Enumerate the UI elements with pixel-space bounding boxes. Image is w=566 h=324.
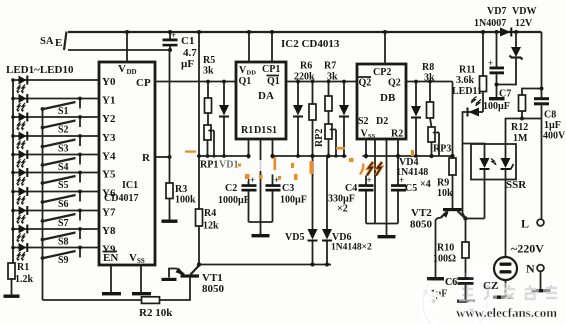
wire CP of IC1 to Q1 of DA xyxy=(155,81,236,83)
svg-text:S7: S7 xyxy=(58,218,69,229)
ground below C2 C3 xyxy=(249,222,273,237)
svg-text:Q2: Q2 xyxy=(388,78,401,89)
svg-text:+: + xyxy=(250,175,255,185)
svg-text:1N4148×2: 1N4148×2 xyxy=(331,243,372,253)
LED column label xyxy=(6,64,74,76)
terminal L xyxy=(521,217,544,231)
svg-text:VD5: VD5 xyxy=(285,232,304,243)
capacitor C6 xyxy=(423,277,474,300)
resistor R8 xyxy=(422,62,435,127)
label RP1 VD1 xyxy=(200,160,238,171)
svg-text:1.2k: 1.2k xyxy=(15,274,34,285)
LED LED5 xyxy=(11,150,99,168)
switch S1 xyxy=(41,97,82,117)
ground below C7 xyxy=(489,97,505,100)
svg-text:S2: S2 xyxy=(358,116,369,127)
svg-text:Q1: Q1 xyxy=(267,76,280,87)
diode VD1 xyxy=(219,80,229,158)
ground below R3 xyxy=(162,220,178,223)
svg-text:C1: C1 xyxy=(181,35,194,47)
node Y5 pin label xyxy=(102,169,116,181)
switch S7 xyxy=(41,209,82,229)
svg-text:×2: ×2 xyxy=(337,204,348,215)
LED LED1 xyxy=(11,76,99,94)
svg-text:Y5: Y5 xyxy=(102,169,116,181)
diode VD7 xyxy=(474,6,518,37)
svg-text:R2: R2 xyxy=(391,129,403,140)
capacitor C4 xyxy=(328,139,374,224)
svg-text:IC2 CD4013: IC2 CD4013 xyxy=(281,38,340,50)
IC2 label xyxy=(281,38,340,50)
svg-text:Y7: Y7 xyxy=(102,207,116,219)
svg-text:Y2: Y2 xyxy=(102,113,116,125)
svg-text:Y0: Y0 xyxy=(102,76,116,88)
wire DA CP1 pin to bus xyxy=(270,30,274,62)
IC1 CD4017 box xyxy=(99,62,155,265)
svg-text:×4: ×4 xyxy=(420,179,431,190)
svg-text:V: V xyxy=(118,63,126,75)
svg-text:S9: S9 xyxy=(58,255,69,266)
transistor VT1 8050 xyxy=(162,262,225,295)
svg-text:S8: S8 xyxy=(58,237,69,248)
svg-text:R10: R10 xyxy=(437,243,454,254)
svg-text:3.6k: 3.6k xyxy=(456,75,475,86)
LED LED4 xyxy=(11,132,99,150)
wire right rail xyxy=(540,32,544,98)
node Y3 pin label xyxy=(102,132,116,144)
ground below CZ xyxy=(493,296,512,299)
resistor R12 xyxy=(511,89,542,145)
wire R pin of IC1 xyxy=(155,155,172,159)
white watermark band patches xyxy=(200,153,370,181)
svg-text:100µF: 100µF xyxy=(483,101,510,112)
ground below EN pin xyxy=(102,265,121,295)
svg-text:LED1~LED10: LED1~LED10 xyxy=(6,64,74,76)
label 220V xyxy=(511,242,544,256)
wire R2 to VT1 base xyxy=(160,277,191,300)
resistor R1 xyxy=(8,262,34,295)
svg-text:www.elecfans.com: www.elecfans.com xyxy=(456,305,557,320)
wire LED anode bus xyxy=(12,80,14,264)
svg-text:1000µF: 1000µF xyxy=(218,195,250,206)
svg-text:R7: R7 xyxy=(324,61,336,72)
svg-text:C2: C2 xyxy=(225,183,237,194)
ground below N xyxy=(532,289,551,292)
node Y9 pin label xyxy=(102,244,116,256)
wire R12 to SSR triac xyxy=(506,119,542,159)
potentiometer RP3 xyxy=(428,127,451,158)
svg-text:100Ω: 100Ω xyxy=(433,254,456,265)
ground below C4 C5 xyxy=(366,224,398,239)
svg-text:C4: C4 xyxy=(345,183,357,194)
svg-text:S5: S5 xyxy=(58,180,69,191)
svg-text:1M: 1M xyxy=(513,133,528,144)
wire D2 pin down xyxy=(386,139,388,224)
switch S8 xyxy=(41,227,82,247)
wire DB CP2 pin to bus xyxy=(383,30,387,64)
svg-text:Q2: Q2 xyxy=(359,78,372,89)
svg-text:VDW: VDW xyxy=(512,6,536,17)
capacitor C7 xyxy=(483,32,511,112)
wire VT2 collector node xyxy=(466,218,485,220)
capacitor C1 xyxy=(163,30,198,70)
watermark logo circle xyxy=(423,265,490,324)
capacitor C5 xyxy=(391,139,431,224)
switch SA xyxy=(40,32,170,51)
LED LED2 xyxy=(11,94,99,112)
diode VD3 xyxy=(411,80,421,158)
svg-text:Y3: Y3 xyxy=(102,132,116,144)
svg-text:SSR: SSR xyxy=(506,179,527,191)
svg-text:D1: D1 xyxy=(254,125,266,136)
svg-text:R: R xyxy=(142,152,151,164)
resistor R10 xyxy=(433,219,469,278)
resistor R2 xyxy=(139,297,173,319)
svg-text:1µF: 1µF xyxy=(544,120,561,131)
LED LED11 xyxy=(452,86,483,144)
resistor R5 xyxy=(203,55,215,125)
svg-text:R1: R1 xyxy=(241,125,253,136)
svg-text:S3: S3 xyxy=(58,144,69,155)
svg-text:3k: 3k xyxy=(203,66,214,77)
node Y6 pin label xyxy=(102,188,116,200)
switch S6 xyxy=(41,190,82,210)
svg-text:1N4007: 1N4007 xyxy=(474,18,506,29)
svg-text:D2: D2 xyxy=(376,116,388,127)
LED LED3 xyxy=(11,113,99,131)
svg-text:400V: 400V xyxy=(543,131,566,142)
node Y2 pin label xyxy=(102,113,116,125)
svg-text:R9: R9 xyxy=(437,178,449,189)
svg-text:Y4: Y4 xyxy=(102,151,116,163)
switch S2 xyxy=(41,115,82,135)
svg-text:S4: S4 xyxy=(58,162,69,173)
svg-text:V: V xyxy=(129,252,137,264)
svg-text:LED11: LED11 xyxy=(452,86,482,97)
wire C1 down to R3 xyxy=(169,50,171,183)
svg-text:IC1: IC1 xyxy=(122,180,138,191)
svg-text:Y6: Y6 xyxy=(102,188,116,200)
svg-text:8050: 8050 xyxy=(410,219,433,231)
svg-text:10k: 10k xyxy=(437,188,453,199)
resistor R7 xyxy=(324,61,338,125)
svg-text:+: + xyxy=(367,175,372,185)
ground below C6 xyxy=(457,300,475,303)
svg-text:R2 10k: R2 10k xyxy=(139,307,173,319)
wire switch common bus xyxy=(42,109,44,300)
svg-text:VT2: VT2 xyxy=(411,207,432,219)
svg-text:8050: 8050 xyxy=(202,283,225,295)
node Y4 pin label xyxy=(102,151,116,163)
wire bus down through R4 xyxy=(197,30,201,209)
capacitor C3 xyxy=(266,139,307,222)
LED LED6 xyxy=(11,168,99,186)
switch S3 xyxy=(41,134,82,154)
svg-text:C8: C8 xyxy=(544,110,556,121)
zener VDW 12V xyxy=(497,6,537,85)
svg-text:CP2: CP2 xyxy=(373,67,391,78)
svg-text:100µF: 100µF xyxy=(280,195,307,206)
svg-text:RP3: RP3 xyxy=(433,144,451,155)
ground below R1 xyxy=(4,295,20,298)
diode VD2 xyxy=(293,80,303,158)
restore ink over watermark xyxy=(427,257,517,300)
switch S5 xyxy=(41,171,82,191)
orange watermark fragments xyxy=(185,147,414,180)
switch S4 xyxy=(41,153,82,173)
svg-text:C6: C6 xyxy=(445,277,457,288)
svg-text:RP2: RP2 xyxy=(314,129,325,147)
node Y1 pin label xyxy=(102,95,115,107)
svg-text:Y8: Y8 xyxy=(102,225,116,237)
LED LED9 xyxy=(11,225,99,243)
wire VT1 collector to VD5 VD6 xyxy=(199,264,331,266)
terminal N xyxy=(526,262,544,290)
svg-text:VD7: VD7 xyxy=(487,6,506,17)
svg-text:N: N xyxy=(526,262,535,276)
capacitor C2 xyxy=(218,139,257,222)
LED inside SSR xyxy=(480,158,497,170)
svg-text:1N4148: 1N4148 xyxy=(396,167,428,178)
transistor VT2 8050 xyxy=(410,207,468,277)
svg-text:Y9: Y9 xyxy=(102,244,116,256)
svg-text:S2: S2 xyxy=(58,125,69,136)
svg-text:~220V: ~220V xyxy=(511,242,544,256)
svg-text:VD6: VD6 xyxy=(332,232,351,243)
socket CZ xyxy=(483,257,517,296)
svg-text:Q1: Q1 xyxy=(239,76,252,87)
svg-text:R8: R8 xyxy=(422,62,434,73)
ground below VSS pin xyxy=(132,265,151,295)
svg-text:SS: SS xyxy=(368,133,376,140)
svg-text:DA: DA xyxy=(258,90,274,102)
svg-text:S6: S6 xyxy=(58,199,69,210)
potentiometer RP2 xyxy=(314,124,338,158)
svg-text:CZ: CZ xyxy=(483,280,498,292)
wire top VDD bus xyxy=(68,31,542,33)
node Y8 pin label xyxy=(102,225,116,237)
potentiometer RP1 xyxy=(204,125,216,158)
wire timing node (left segment) xyxy=(197,154,249,158)
wire timing node (right segment, watermark gap) xyxy=(272,155,453,157)
node Y7 pin label xyxy=(102,207,116,219)
diode VD5 xyxy=(285,156,318,267)
svg-text:R3: R3 xyxy=(175,184,187,195)
flip-flop DA box xyxy=(236,62,286,139)
svg-text:Y1: Y1 xyxy=(102,95,115,107)
wire Q2 of DB to R9 xyxy=(406,81,453,83)
svg-text:R11: R11 xyxy=(459,65,476,76)
wire LED11 to SSR input and VT2 collector xyxy=(463,144,485,219)
svg-text:R6: R6 xyxy=(300,61,312,72)
diode VD2b xyxy=(339,80,349,158)
svg-text:C5: C5 xyxy=(405,183,417,194)
ground below VT2 emitter xyxy=(427,277,444,280)
svg-text:µF: µF xyxy=(181,58,194,70)
svg-text:R12: R12 xyxy=(511,122,528,133)
svg-text:E: E xyxy=(55,37,62,49)
wire Q1bar of DA to Q2bar of DB xyxy=(286,81,357,83)
wire VDD pin of IC1 to bus xyxy=(125,30,129,62)
svg-text:R5: R5 xyxy=(203,55,215,66)
svg-text:DB: DB xyxy=(380,92,396,104)
label VD4 1N4148 xyxy=(396,157,428,178)
wire VSS pin down xyxy=(374,139,376,224)
orange lightning marks xyxy=(367,162,382,176)
LED LED7 xyxy=(11,187,99,205)
resistor R11 xyxy=(456,30,487,112)
svg-text:SS: SS xyxy=(137,257,145,265)
svg-text:CP: CP xyxy=(136,77,151,89)
svg-text:12k: 12k xyxy=(203,221,219,232)
resistor R9 xyxy=(437,82,456,209)
triac inside SSR xyxy=(501,158,514,257)
LED LED8 xyxy=(11,206,99,224)
svg-text:R4: R4 xyxy=(204,208,216,219)
flip-flop DB box xyxy=(357,64,406,140)
resistor R6 xyxy=(294,61,316,159)
svg-text:100k: 100k xyxy=(175,195,196,206)
svg-text:S1: S1 xyxy=(267,125,278,136)
svg-text:C3: C3 xyxy=(282,183,294,194)
switch S9 xyxy=(41,246,82,266)
svg-text:R1: R1 xyxy=(17,262,29,273)
LED LED10 xyxy=(11,243,99,261)
wire bottom base wire to R2 xyxy=(43,299,142,301)
svg-text:12V: 12V xyxy=(515,18,533,29)
svg-text:SA: SA xyxy=(40,36,54,47)
relay SSR box xyxy=(471,144,527,191)
capacitor C8 xyxy=(534,97,566,219)
svg-text:S1: S1 xyxy=(58,106,69,117)
resistor R3 xyxy=(166,183,196,220)
svg-text:L: L xyxy=(521,217,529,231)
svg-text:CP1: CP1 xyxy=(262,64,280,75)
wire DA VDD pin to bus xyxy=(247,30,251,62)
wire D1 pin down xyxy=(260,139,262,222)
svg-text:DD: DD xyxy=(127,68,137,76)
resistor R4 xyxy=(196,208,220,265)
watermark text elecfans xyxy=(427,257,560,320)
node Y0 pin label xyxy=(102,76,116,88)
diode VD6 xyxy=(322,156,372,267)
